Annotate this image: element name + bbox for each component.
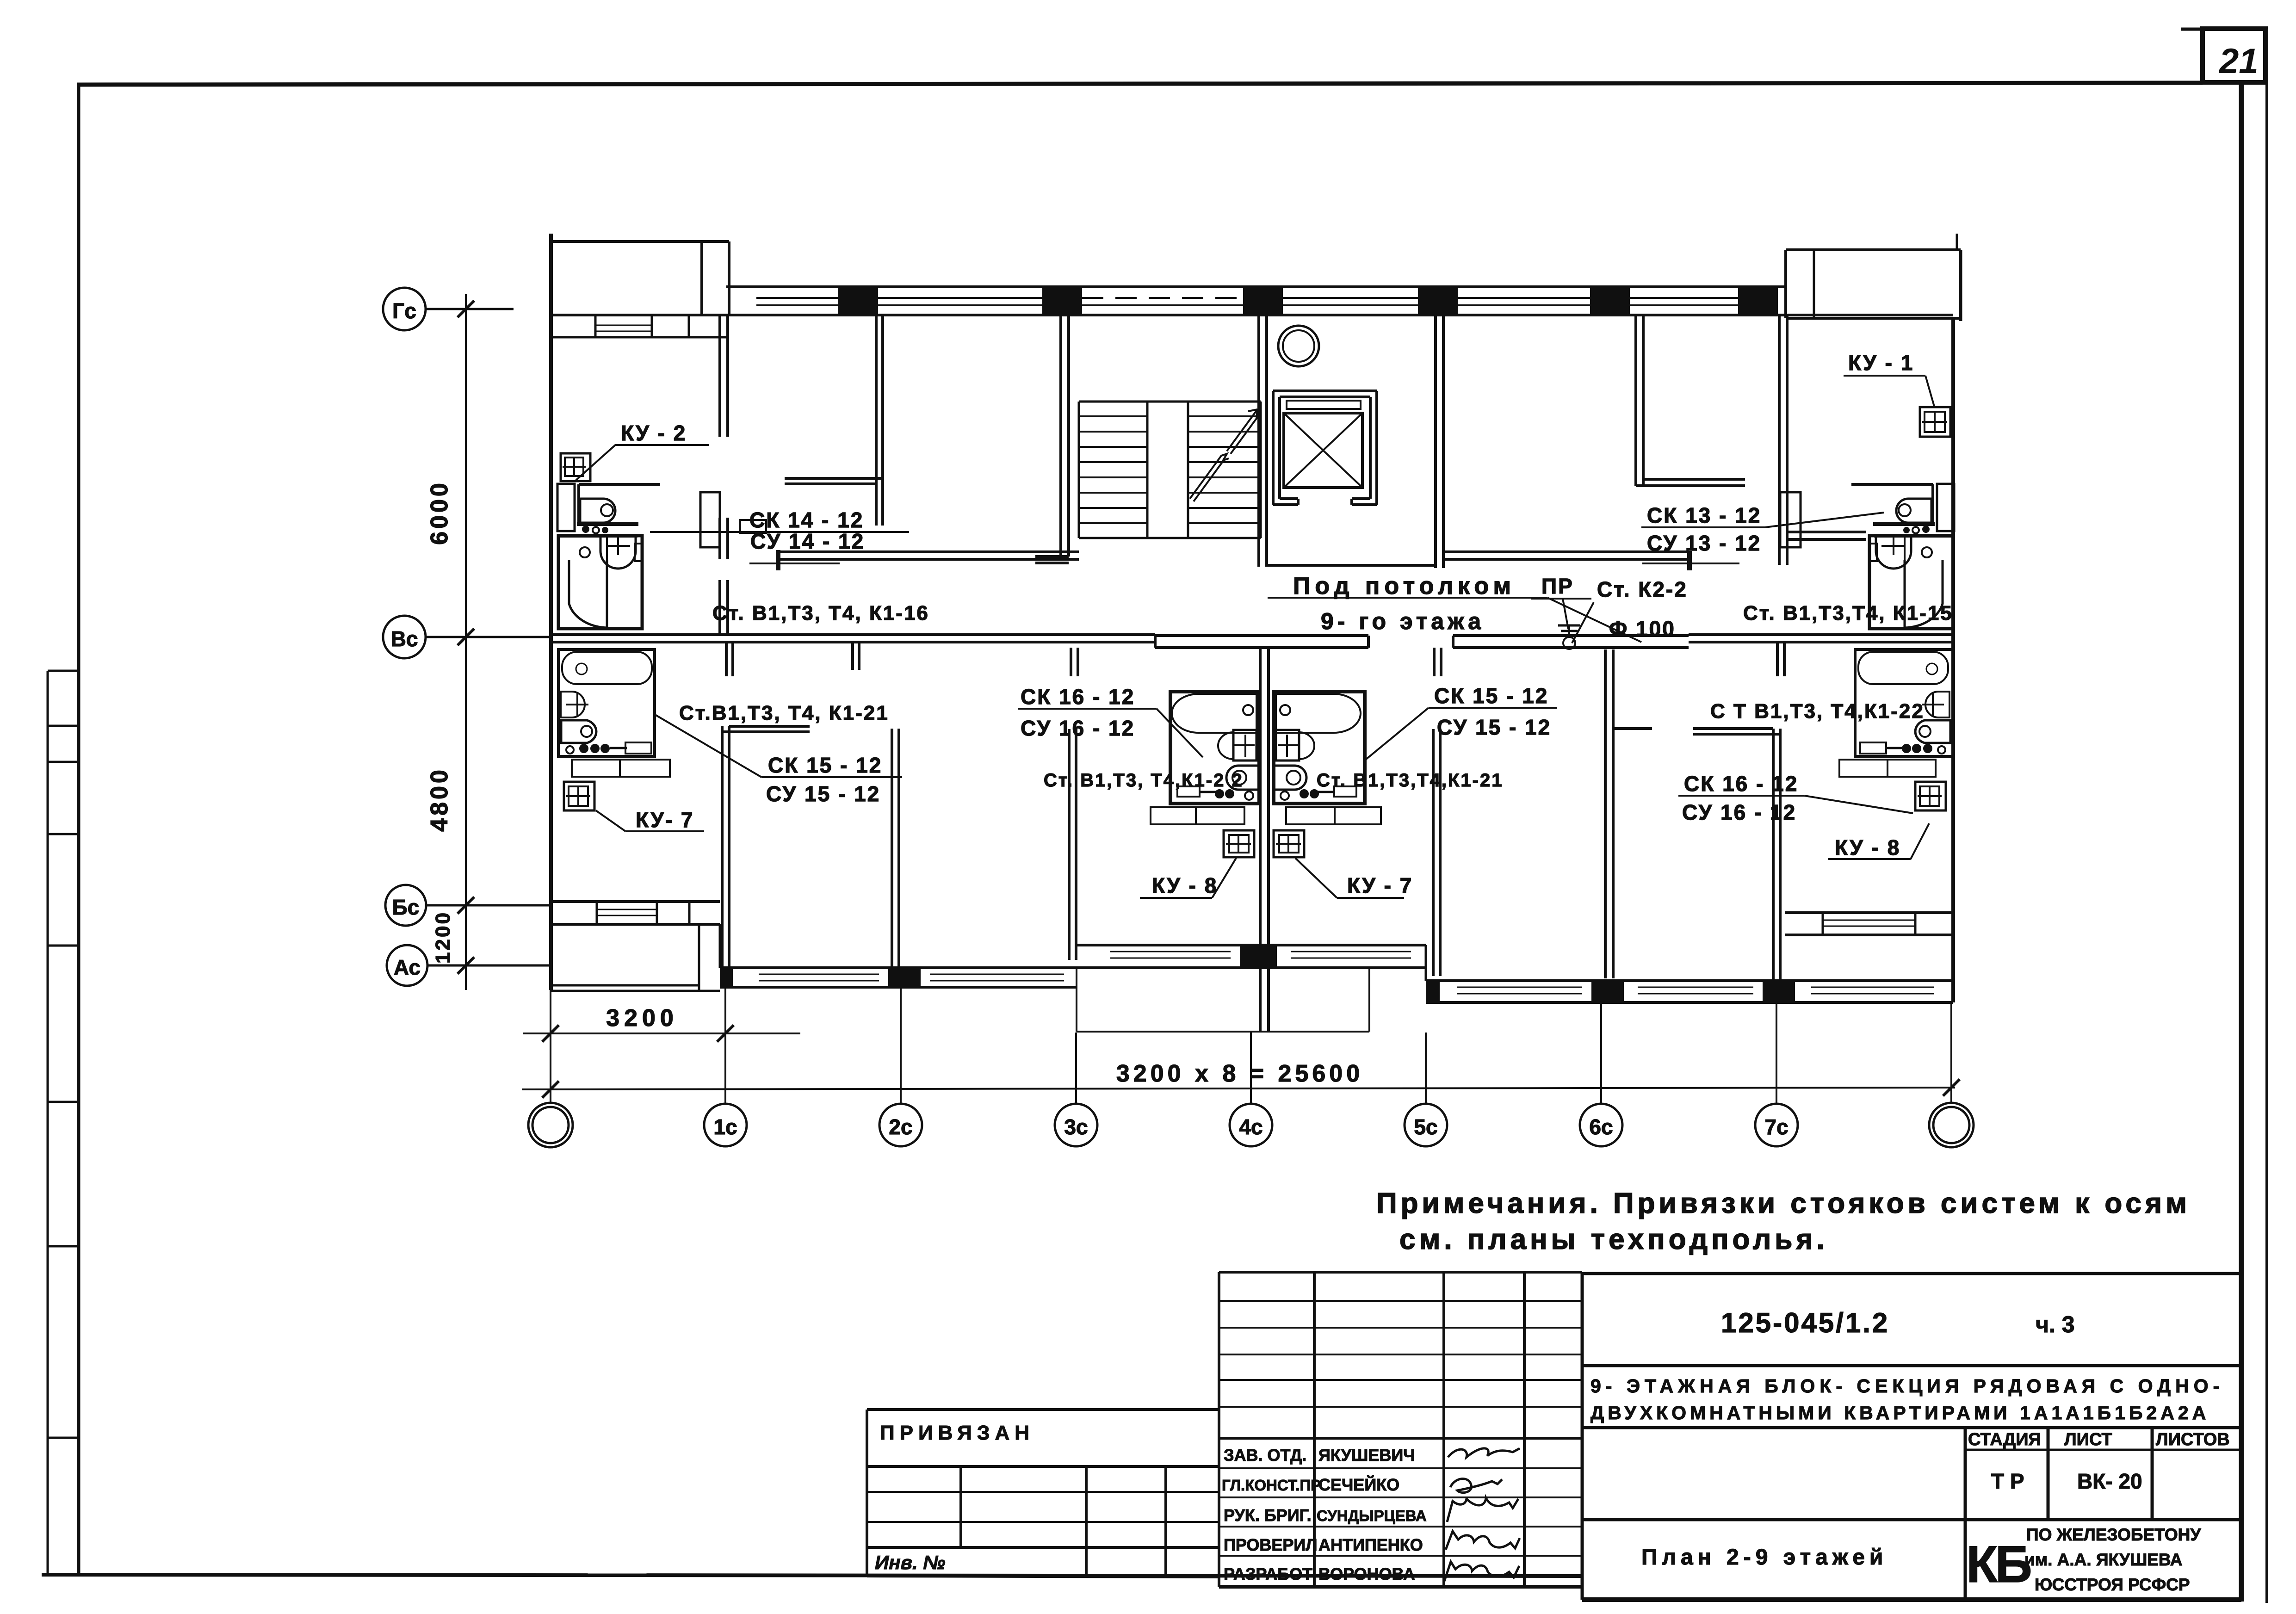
svg-text:1200: 1200 [432,911,454,964]
svg-text:4с: 4с [1239,1115,1262,1139]
svg-text:СУ 14 - 12: СУ 14 - 12 [750,529,865,553]
svg-text:СЕЧЕЙКО: СЕЧЕЙКО [1318,1475,1399,1494]
svg-text:КУ - 7: КУ - 7 [1347,873,1413,897]
svg-text:ЛИСТОВ: ЛИСТОВ [2156,1430,2230,1449]
svg-text:Ст. В1,Т3, Т4, К1-16: Ст. В1,Т3, Т4, К1-16 [712,602,929,625]
svg-text:КУ - 8: КУ - 8 [1152,873,1218,897]
svg-text:С Т В1,Т3, Т4,К1-22: С Т В1,Т3, Т4,К1-22 [1710,700,1925,723]
svg-text:ПО ЖЕЛЕЗОБЕТОНУ: ПО ЖЕЛЕЗОБЕТОНУ [2026,1525,2201,1544]
svg-text:Примечания. Привязки сто: Примечания. Привязки стояков систем к ос… [1376,1187,2191,1219]
svg-text:3с: 3с [1064,1115,1088,1139]
svg-text:Вс: Вс [391,627,418,651]
svg-text:РУК. БРИГ.: РУК. БРИГ. [1224,1506,1312,1525]
svg-text:СК 15 - 12: СК 15 - 12 [768,753,882,777]
svg-text:ЯКУШЕВИЧ: ЯКУШЕВИЧ [1318,1446,1415,1465]
svg-text:СК 16 - 12: СК 16 - 12 [1021,685,1135,709]
svg-text:9- ЭТАЖНАЯ БЛОК- СЕКЦИЯ РЯД: 9- ЭТАЖНАЯ БЛОК- СЕКЦИЯ РЯДОВАЯ С ОДНО- [1590,1375,2224,1397]
svg-text:им. А.А. ЯКУШЕВА: им. А.А. ЯКУШЕВА [2024,1550,2183,1569]
svg-text:Инв. №: Инв. № [875,1552,945,1573]
svg-text:СК 16 - 12: СК 16 - 12 [1684,772,1798,796]
svg-text:Под потолком: Под потолком [1293,573,1516,600]
svg-text:КУ - 8: КУ - 8 [1835,835,1900,860]
svg-text:СУНДЫРЦЕВА: СУНДЫРЦЕВА [1317,1507,1427,1524]
svg-text:Ст. В1,Т3, Т4,К1-2 2: Ст. В1,Т3, Т4,К1-2 2 [1044,770,1244,791]
svg-text:7с: 7с [1764,1115,1788,1139]
svg-text:1с: 1с [713,1115,737,1139]
svg-text:ГЛ.КОНСТ.ПР: ГЛ.КОНСТ.ПР [1222,1477,1321,1494]
svg-text:СК 14 - 12: СК 14 - 12 [749,508,864,532]
svg-text:ЗАВ. ОТД.: ЗАВ. ОТД. [1224,1446,1306,1465]
svg-text:СУ 15 - 12: СУ 15 - 12 [766,782,880,806]
svg-text:СК 15 - 12: СК 15 - 12 [1434,684,1548,708]
svg-text:5с: 5с [1414,1115,1437,1139]
svg-text:ЮССТРОЯ РСФСР: ЮССТРОЯ РСФСР [2035,1575,2190,1594]
svg-text:РАЗРАБОТ: РАЗРАБОТ [1224,1565,1312,1583]
svg-text:Ас: Ас [394,955,421,979]
svg-text:СУ 16 - 12: СУ 16 - 12 [1021,716,1135,740]
svg-text:21: 21 [2218,42,2259,81]
svg-text:125-045/1.2: 125-045/1.2 [1721,1307,1889,1338]
svg-text:6с: 6с [1589,1115,1613,1139]
svg-text:ВОРОНОВА: ВОРОНОВА [1318,1565,1415,1583]
svg-text:Ст. К2-2: Ст. К2-2 [1597,577,1688,601]
svg-text:9- го этажа: 9- го этажа [1321,608,1485,634]
svg-text:КБ: КБ [1966,1535,2030,1593]
svg-text:ВК- 20: ВК- 20 [2077,1469,2142,1493]
svg-text:4800: 4800 [426,767,453,832]
svg-text:СУ 13 - 12: СУ 13 - 12 [1647,531,1761,555]
svg-text:см. планы техподполья.: см. планы техподполья. [1399,1224,1828,1255]
svg-text:ДВУХКОМНАТНЫМИ КВАРТИРАМИ 1А: ДВУХКОМНАТНЫМИ КВАРТИРАМИ 1А1А1Б1Б2А2А [1590,1402,2209,1423]
svg-text:ПРИВЯЗАН: ПРИВЯЗАН [880,1422,1034,1444]
svg-text:АНТИПЕНКО: АНТИПЕНКО [1318,1535,1423,1554]
svg-text:ч. 3: ч. 3 [2036,1311,2075,1337]
svg-text:ПРОВЕРИЛ: ПРОВЕРИЛ [1224,1535,1318,1554]
svg-text:СУ 15 - 12: СУ 15 - 12 [1437,715,1551,739]
svg-text:КУ - 1: КУ - 1 [1848,351,1914,375]
svg-text:Гс: Гс [392,299,416,323]
svg-text:Ст. В1,Т3,Т4,К1-21: Ст. В1,Т3,Т4,К1-21 [1317,770,1504,791]
svg-text:План 2-9 этажей: План 2-9 этажей [1641,1545,1888,1570]
svg-text:СТАДИЯ: СТАДИЯ [1968,1430,2041,1449]
svg-text:Ст. В1,Т3,Т4, К1-15: Ст. В1,Т3,Т4, К1-15 [1743,602,1953,625]
svg-text:ПР: ПР [1541,574,1574,598]
svg-text:6000: 6000 [426,480,453,545]
svg-text:2с: 2с [889,1115,912,1139]
svg-text:КУ - 2: КУ - 2 [621,421,687,445]
svg-text:3200: 3200 [606,1005,678,1032]
svg-text:Т Р: Т Р [1991,1469,2024,1493]
svg-text:Ф 100: Ф 100 [1609,617,1676,641]
svg-text:СК 13 - 12: СК 13 - 12 [1647,503,1761,527]
svg-text:Бс: Бс [392,895,420,919]
svg-text:3200 х 8 = 25600: 3200 х 8 = 25600 [1116,1060,1363,1087]
svg-text:ЛИСТ: ЛИСТ [2064,1430,2112,1449]
svg-text:КУ- 7: КУ- 7 [636,808,694,832]
svg-text:СУ 16 - 12: СУ 16 - 12 [1682,800,1796,824]
svg-text:Ст.В1,Т3, Т4, К1-21: Ст.В1,Т3, Т4, К1-21 [679,702,889,724]
